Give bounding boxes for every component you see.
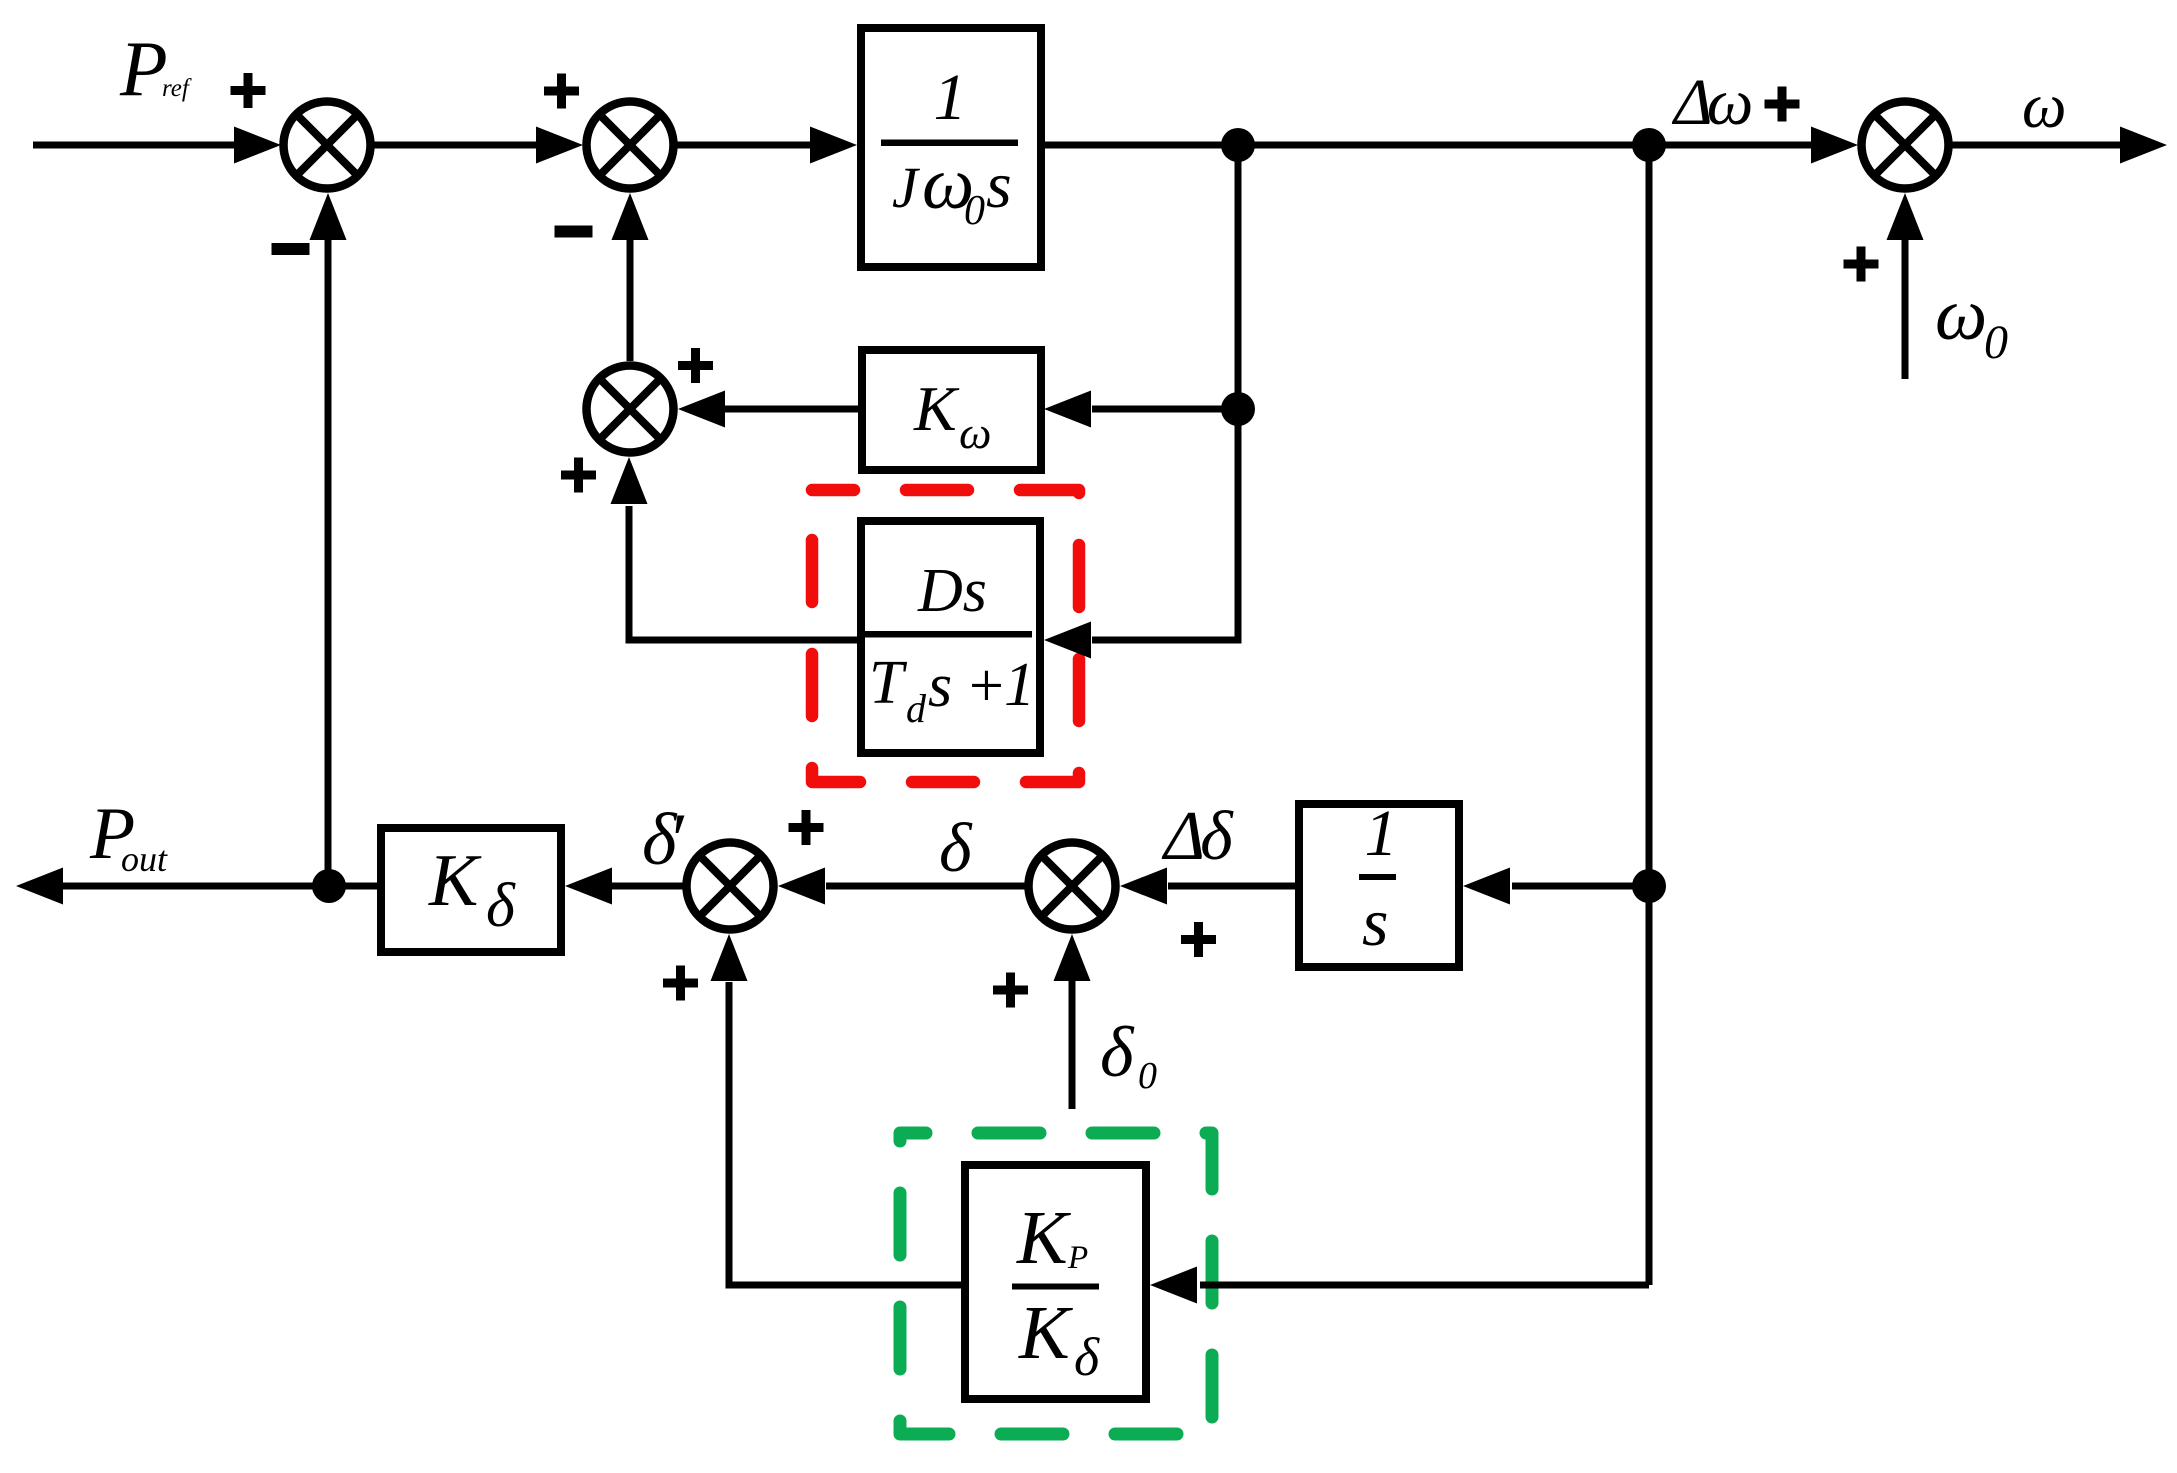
svg-text:out: out (121, 839, 168, 879)
svg-text:ω: ω (1935, 274, 1987, 356)
svg-text:0: 0 (1138, 1055, 1157, 1097)
svg-text:δ: δ (1100, 1012, 1135, 1092)
svg-text:ω: ω (959, 407, 991, 458)
svg-text:J: J (892, 155, 921, 220)
svg-text:P: P (1067, 1240, 1088, 1276)
svg-text:Δδ: Δδ (1161, 798, 1234, 875)
svg-text:d: d (906, 686, 927, 731)
svg-text:1: 1 (1004, 651, 1035, 719)
svg-text:s: s (986, 149, 1012, 222)
svg-text:1: 1 (1365, 797, 1398, 870)
svg-text:ω: ω (2022, 71, 2066, 141)
svg-text:T: T (869, 649, 908, 717)
svg-text:δ: δ (1074, 1327, 1100, 1387)
svg-text:K: K (1016, 1196, 1071, 1280)
svg-text:δ: δ (486, 872, 516, 940)
svg-text:Ds: Ds (917, 557, 987, 625)
svg-text:0: 0 (1984, 316, 2008, 369)
svg-text:Δω: Δω (1671, 66, 1753, 139)
svg-text:δ: δ (939, 810, 973, 887)
svg-text:+: + (965, 652, 1007, 720)
svg-text:ref: ref (162, 75, 192, 102)
svg-text:0: 0 (964, 188, 985, 234)
svg-text:P: P (119, 25, 168, 112)
svg-text:K: K (428, 840, 482, 922)
svg-text:K: K (1018, 1291, 1073, 1375)
svg-text:s: s (1362, 884, 1388, 960)
svg-text:K: K (913, 373, 960, 444)
svg-text:δ′: δ′ (642, 799, 685, 881)
svg-text:s: s (928, 652, 952, 720)
svg-text:1: 1 (934, 61, 967, 134)
